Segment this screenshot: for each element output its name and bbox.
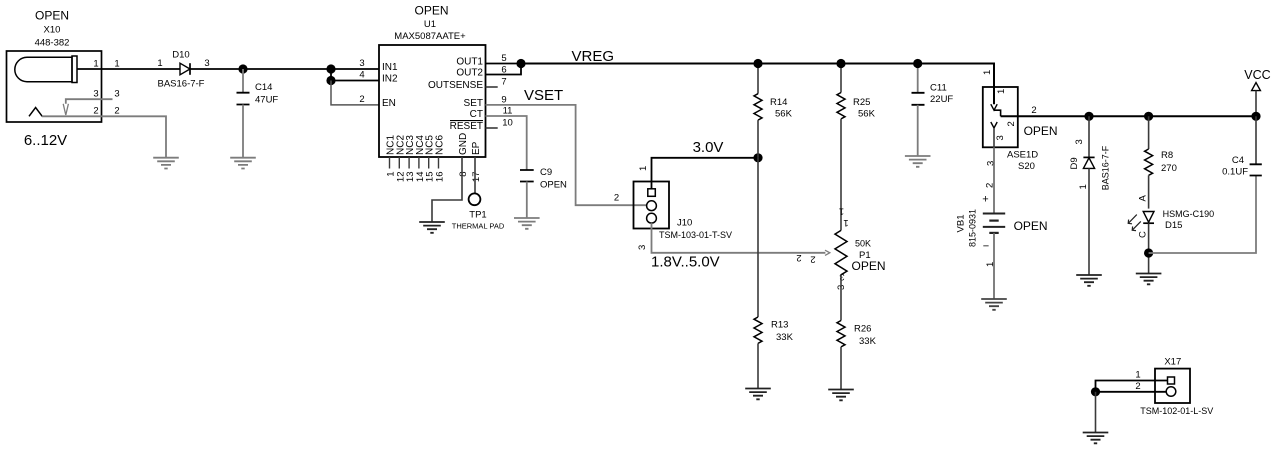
ground (R13)	[745, 389, 771, 400]
svg-text:2: 2	[114, 106, 119, 117]
svg-text:OPEN: OPEN	[1014, 219, 1048, 233]
svg-text:X17: X17	[1164, 357, 1181, 368]
svg-text:TSM-102-01-L-SV: TSM-102-01-L-SV	[1140, 406, 1213, 416]
svg-text:MAX5087AATE+: MAX5087AATE+	[394, 31, 466, 42]
connector X10 body	[7, 51, 102, 122]
wire IN2	[331, 80, 379, 82]
svg-text:OPEN: OPEN	[414, 4, 448, 18]
svg-text:D15: D15	[1165, 220, 1182, 231]
svg-text:NC6: NC6	[435, 135, 446, 155]
svg-text:3: 3	[1074, 139, 1085, 144]
svg-text:ASE1D: ASE1D	[1007, 150, 1038, 161]
junction dot R25 top	[836, 59, 845, 68]
svg-text:270: 270	[1161, 163, 1177, 174]
ground (D15)	[1136, 274, 1162, 285]
svg-text:1: 1	[843, 217, 848, 228]
svg-text:R13: R13	[771, 320, 788, 331]
svg-text:3: 3	[839, 271, 844, 282]
X17 pin 2 circle pad	[1166, 387, 1176, 397]
junction dot VCC	[1251, 112, 1260, 121]
svg-text:1: 1	[982, 70, 993, 75]
svg-text:OPEN: OPEN	[540, 180, 567, 191]
battery VB1	[983, 214, 1005, 233]
svg-text:GND: GND	[458, 133, 469, 155]
svg-text:CT: CT	[470, 109, 483, 120]
J10 pin 2 circle pad	[647, 201, 657, 211]
svg-text:2: 2	[810, 254, 815, 265]
svg-text:448-382: 448-382	[35, 38, 70, 49]
X10 pin 3 stub wire	[66, 99, 113, 104]
svg-text:BAS16-7-F: BAS16-7-F	[158, 79, 205, 90]
J10 pin 1 square pad	[648, 189, 656, 197]
S20 internal link to pin 2	[994, 110, 1001, 116]
svg-text:C4: C4	[1232, 155, 1244, 166]
svg-text:1: 1	[157, 58, 162, 69]
X10 internal switch arrow	[63, 104, 68, 115]
svg-text:R25: R25	[853, 97, 870, 108]
junction dot D9 top	[1084, 112, 1093, 121]
svg-text:R26: R26	[854, 324, 871, 335]
wire S20 to battery	[993, 147, 995, 213]
wire VREG rail	[521, 64, 994, 105]
svg-text:BAS16-7-F: BAS16-7-F	[1101, 145, 1111, 190]
junction dot R14 top	[753, 59, 762, 68]
wire OUT1	[486, 63, 522, 65]
S20 pin 3 wire inside box	[993, 128, 995, 147]
wire X10 pin1 to D10	[77, 68, 180, 70]
U1 bottom pin labels NC1-NC6 GND EP (rotated)	[386, 133, 483, 155]
svg-text:33K: 33K	[859, 336, 877, 347]
svg-text:OUTSENSE: OUTSENSE	[428, 80, 483, 91]
ground (VB1)	[981, 299, 1007, 310]
wire VB1 to ground	[993, 233, 995, 299]
svg-text:VREG: VREG	[572, 48, 615, 65]
U1 bottom pin numbers (rotated)	[386, 172, 483, 183]
svg-text:1: 1	[839, 206, 844, 217]
svg-text:1: 1	[114, 59, 119, 70]
U1 bottom pin stubs	[390, 157, 439, 169]
ground (D9)	[1076, 275, 1102, 286]
ground (R26)	[828, 390, 854, 401]
svg-text:1: 1	[93, 59, 98, 70]
wire S20 pin 2 rail	[1001, 115, 1256, 117]
svg-text:10: 10	[502, 118, 513, 129]
X17 pin 2 wire	[1096, 391, 1167, 393]
svg-text:7: 7	[501, 77, 506, 88]
svg-text:TP1: TP1	[469, 210, 486, 221]
svg-text:1: 1	[1135, 369, 1140, 380]
J10 pin 3 wire to P1 wiper net	[652, 223, 826, 253]
svg-text:2: 2	[359, 94, 364, 105]
junction dot IN2	[326, 76, 335, 85]
svg-text:33K: 33K	[776, 332, 794, 343]
svg-text:C11: C11	[930, 83, 947, 94]
svg-text:2: 2	[796, 252, 801, 263]
switch S20 body	[983, 87, 1018, 147]
diode D10	[180, 63, 190, 75]
svg-text:R14: R14	[770, 97, 787, 108]
svg-text:S20: S20	[1018, 161, 1035, 172]
connector J10 body	[634, 182, 670, 229]
svg-text:17: 17	[471, 172, 482, 183]
resistor R26	[837, 321, 845, 390]
U1 EP wire to TP1	[474, 157, 476, 193]
svg-text:2: 2	[1135, 381, 1140, 392]
svg-text:3: 3	[93, 88, 98, 99]
X17 pin 1 wire	[1096, 381, 1168, 392]
svg-text:3.0V: 3.0V	[693, 139, 724, 156]
J10 pin 1 wire to 3.0V node	[652, 158, 759, 189]
wire P1 to R26	[840, 275, 842, 321]
wire OUT2 up to OUT1	[486, 64, 522, 75]
X17 body	[1155, 369, 1190, 403]
S20 contact arrow 1	[991, 104, 997, 110]
svg-text:0.1UF: 0.1UF	[1222, 167, 1248, 178]
wire D15 to ground	[1148, 223, 1150, 273]
junction dot R8 top	[1144, 112, 1153, 121]
diode D9	[1083, 116, 1094, 275]
svg-text:2: 2	[1031, 105, 1036, 116]
svg-text:16: 16	[435, 172, 446, 183]
wire C4 bottom return	[1149, 176, 1256, 254]
svg-text:11: 11	[503, 106, 513, 117]
svg-text:22UF: 22UF	[930, 94, 953, 105]
svg-text:D9: D9	[1069, 157, 1080, 169]
svg-text:IN1: IN1	[382, 62, 398, 73]
svg-text:2: 2	[93, 106, 98, 117]
svg-text:1: 1	[996, 89, 1007, 94]
svg-text:THERMAL PAD: THERMAL PAD	[452, 222, 505, 231]
ground (C9)	[514, 218, 540, 229]
svg-text:X10: X10	[44, 25, 61, 36]
ground (X10 pin 2)	[153, 158, 179, 169]
ground (U1 GND)	[419, 222, 445, 233]
svg-text:RESET: RESET	[450, 121, 483, 132]
wire between IN1 and IN2 dots	[330, 69, 332, 81]
svg-text:SET: SET	[464, 98, 483, 109]
svg-text:VSET: VSET	[524, 87, 563, 104]
svg-text:VB1: VB1	[956, 215, 967, 233]
svg-text:8: 8	[458, 172, 469, 177]
junction dot at C14 tap	[238, 64, 247, 73]
svg-text:47UF: 47UF	[255, 94, 278, 105]
wire D10 to node	[190, 68, 379, 70]
wire CT to C9	[486, 116, 527, 170]
OUTSENSE stub	[486, 86, 498, 88]
svg-text:1.8V..5.0V: 1.8V..5.0V	[651, 254, 720, 271]
svg-text:−: −	[983, 241, 989, 253]
wire SET net (VSET)	[486, 105, 647, 205]
svg-text:OUT2: OUT2	[456, 68, 483, 79]
svg-text:+: +	[982, 194, 988, 206]
svg-text:50K: 50K	[855, 239, 871, 249]
svg-text:U1: U1	[424, 19, 436, 30]
X17 pin 1 square pad	[1168, 377, 1175, 384]
svg-text:EN: EN	[382, 98, 396, 109]
svg-text:HSMG-C190: HSMG-C190	[1163, 209, 1215, 219]
svg-text:4: 4	[359, 70, 364, 81]
svg-text:2: 2	[614, 193, 619, 204]
svg-text:2: 2	[985, 183, 996, 188]
junction dot C11 top	[913, 59, 922, 68]
junction dot VREG	[516, 59, 525, 68]
svg-text:3: 3	[114, 88, 119, 99]
svg-text:56K: 56K	[858, 108, 876, 119]
svg-text:OPEN: OPEN	[1024, 124, 1058, 138]
svg-text:1: 1	[638, 166, 649, 171]
svg-text:9: 9	[501, 95, 506, 106]
svg-text:56K: 56K	[775, 108, 793, 119]
junction dot IN1	[326, 64, 335, 73]
svg-text:J10: J10	[677, 218, 692, 229]
D15 emission arrows	[1128, 215, 1141, 231]
svg-text:VCC: VCC	[1244, 68, 1270, 82]
ground (C14)	[230, 158, 256, 169]
svg-text:C9: C9	[540, 167, 552, 178]
LED D15	[1143, 212, 1154, 224]
svg-text:OUT1: OUT1	[456, 57, 483, 68]
svg-text:3: 3	[637, 245, 648, 250]
svg-text:R8: R8	[1161, 150, 1173, 161]
resistor R25	[837, 64, 845, 231]
svg-text:815-0931: 815-0931	[968, 209, 978, 247]
U1 body	[379, 45, 486, 157]
RESET stub	[486, 127, 498, 129]
svg-text:5: 5	[501, 53, 506, 64]
svg-text:D10: D10	[172, 50, 189, 61]
capacitor C4	[1250, 116, 1262, 175]
ground (C11)	[905, 156, 931, 167]
svg-text:2: 2	[1006, 121, 1017, 126]
potentiometer P1	[835, 230, 847, 274]
svg-text:3: 3	[204, 58, 209, 69]
svg-text:C14: C14	[255, 82, 272, 93]
svg-text:OPEN: OPEN	[852, 259, 886, 273]
svg-text:A: A	[1138, 195, 1149, 202]
S20 contact arrow 2	[991, 122, 997, 128]
svg-text:IN2: IN2	[382, 74, 398, 85]
X10 pin 2 wire to ground	[42, 116, 166, 157]
junction dot 3.0V node	[753, 153, 762, 162]
svg-text:OPEN: OPEN	[35, 9, 69, 23]
resistor R14	[754, 64, 762, 158]
svg-text:3: 3	[995, 135, 1006, 140]
svg-text:C: C	[1138, 231, 1149, 238]
svg-text:1: 1	[1078, 184, 1089, 189]
capacitor C14	[237, 69, 250, 158]
junction dot D15 bottom	[1144, 248, 1153, 257]
svg-text:EP: EP	[471, 141, 482, 155]
svg-text:3: 3	[359, 58, 364, 69]
ground (X17)	[1083, 433, 1109, 444]
resistor R8	[1145, 116, 1153, 208]
capacitor C11	[912, 64, 925, 157]
J10 pin 3 circle pad	[647, 213, 657, 223]
capacitor C9	[520, 170, 534, 218]
wiper arrow head	[825, 250, 830, 255]
svg-text:6..12V: 6..12V	[24, 132, 67, 149]
U1 pin label RESET with overline	[450, 121, 483, 132]
test point TP1	[469, 193, 481, 205]
wire down to EN	[331, 81, 379, 105]
U1 GND pin wire	[432, 157, 462, 222]
junction dot X17	[1091, 387, 1100, 396]
power symbol VCC	[1244, 68, 1270, 116]
resistor R13	[754, 158, 762, 389]
svg-text:TSM-103-01-T-SV: TSM-103-01-T-SV	[659, 230, 732, 240]
wire X17 to ground	[1095, 392, 1097, 433]
